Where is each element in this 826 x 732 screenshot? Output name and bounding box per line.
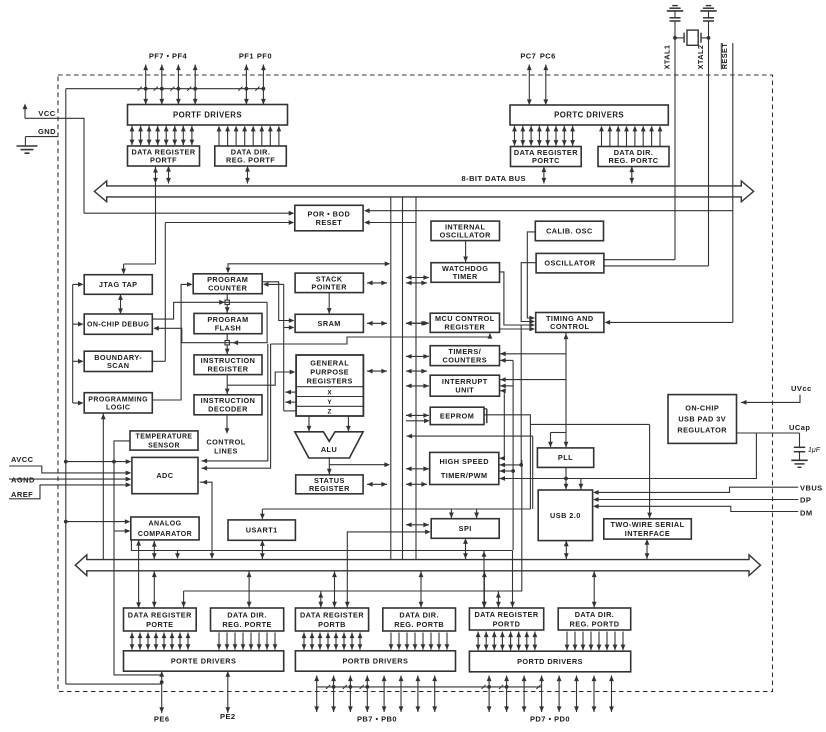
- svg-text:XTAL2: XTAL2: [696, 45, 705, 70]
- svg-text:EEPROM: EEPROM: [440, 412, 474, 421]
- DM wire: [597, 506, 799, 511]
- EEPROM offset edge: [486, 409, 488, 423]
- pin arrow PF5: [177, 65, 179, 105]
- svg-text:PE6: PE6: [154, 715, 170, 724]
- svg-text:DM: DM: [800, 508, 813, 517]
- svg-text:REG. PORTD: REG. PORTD: [570, 619, 620, 628]
- INSTRUCTION DECODER: [194, 395, 262, 415]
- pointer bus line: [283, 284, 285, 411]
- analog mux line over PORTF pins: [66, 88, 264, 90]
- arrow data dir portb to drivers 4: [422, 633, 424, 650]
- pin arrow PF7: [145, 65, 147, 105]
- svg-text:COUNTER: COUNTER: [208, 284, 248, 293]
- vertical bus line C: [415, 197, 417, 560]
- arrow data register porte to data bus: [153, 572, 155, 608]
- svg-text:8-BIT DATA BUS: 8-BIT DATA BUS: [462, 174, 527, 183]
- INSTRUCTION REGISTER: [194, 355, 262, 375]
- arrow data dir portd to drivers 3: [590, 632, 592, 651]
- svg-text:SRAM: SRAM: [318, 319, 341, 328]
- arrow data dir porte to drivers 2: [234, 633, 236, 650]
- svg-text:PORTE DRIVERS: PORTE DRIVERS: [171, 657, 236, 666]
- arrow data register portd to drivers 1: [485, 632, 487, 651]
- arrow data register portd to data bus: [483, 572, 485, 608]
- PLL: [537, 448, 593, 468]
- arrow rail to boundary-scan: [73, 360, 80, 362]
- arrow data register porte to drivers 5: [171, 633, 173, 650]
- svg-text:DECODER: DECODER: [208, 405, 248, 414]
- svg-text:DATA DIR.: DATA DIR.: [575, 610, 615, 619]
- alternate function line PORTB/PORTD pins: [317, 686, 542, 688]
- arrow stack pointer to data bus: [367, 282, 387, 284]
- arrow data dir portb to drivers 7: [446, 633, 448, 650]
- arrow data register portb to drivers 3: [327, 633, 329, 650]
- arrows PORTF drivers to data register: [131, 126, 133, 145]
- arrow data dir portb to drivers 5: [430, 633, 432, 650]
- svg-text:1μF: 1μF: [808, 447, 821, 454]
- usart1 to data bus: [261, 540, 263, 559]
- arrow data dir porte to drivers 7: [274, 633, 276, 650]
- ground symbol above XTAL1 capacitor: [672, 5, 678, 7]
- serial feeder to TWSI: [530, 423, 649, 425]
- arrows PORTC drivers to data register: [514, 126, 516, 146]
- arrow data dir. reg. portb to data bus: [420, 572, 422, 608]
- arrow into EEPROM lower left: [406, 420, 426, 422]
- arrow decoder to control lines: [226, 415, 228, 433]
- svg-text:REGISTERS: REGISTERS: [307, 377, 353, 386]
- wire program counter to flash with breakpoint square: [226, 294, 228, 314]
- high speed timer input 4 from regulator: [499, 433, 756, 479]
- arrow data dir porte to drivers 4: [250, 633, 252, 650]
- arrow from bus up to serial net: [483, 551, 485, 609]
- arrow data register portb to drivers 0: [303, 633, 305, 650]
- analog comparator to data bus: [138, 540, 140, 608]
- arrow into SPI top 1: [450, 509, 452, 518]
- arrow data register portd to drivers 6: [526, 632, 528, 651]
- junction dot + slash: [245, 87, 249, 91]
- pin arrow PD7: [488, 676, 490, 713]
- arrow data register portb to drivers 5: [343, 633, 345, 650]
- EEPROM: [430, 407, 484, 424]
- arrow data register portb to drivers 2: [319, 633, 321, 650]
- svg-text:TEMPERATURE: TEMPERATURE: [136, 433, 193, 440]
- svg-text:VBUS: VBUS: [800, 483, 823, 492]
- INTERNAL OSCILLATOR: [431, 221, 500, 241]
- DATA REGISTER PORTC: [511, 147, 582, 167]
- feeder line down right of timers: [512, 360, 514, 550]
- svg-text:TIMER: TIMER: [453, 272, 478, 281]
- TEMPERATURE SENSOR: [130, 431, 198, 450]
- arrow data dir portb to drivers 1: [398, 633, 400, 650]
- SPI to data bus: [465, 538, 467, 559]
- svg-text:PORTD: PORTD: [493, 619, 521, 628]
- arrow data dir portd to drivers 6: [614, 632, 616, 651]
- junction dot + slash: [177, 87, 181, 91]
- arrow data register portb to data bus: [334, 572, 336, 608]
- DATA DIR. REG. PORTD: [558, 608, 631, 630]
- junction dot + slash: [144, 87, 148, 91]
- svg-text:OSCILLATOR: OSCILLATOR: [440, 231, 492, 240]
- wire interrupt unit input 3: [500, 390, 504, 392]
- left rail from mux line: [65, 89, 67, 684]
- arrow data register porte to drivers 7: [187, 633, 189, 650]
- svg-text:PURPOSE: PURPOSE: [310, 368, 349, 377]
- DATA REGISTER PORTF: [128, 146, 200, 166]
- PORTE DRIVERS: [124, 651, 284, 671]
- svg-text:ADC: ADC: [156, 471, 173, 480]
- RESET line: [732, 43, 734, 322]
- arrow data dir porte to drivers 3: [242, 633, 244, 650]
- breakpoint square 2: [225, 341, 229, 345]
- arrow data dir portd to drivers 2: [582, 632, 584, 651]
- net down to data register portd: [512, 551, 514, 609]
- arrow rail to programming logic: [73, 402, 80, 404]
- wire boundary-scan to rail: [152, 360, 165, 362]
- arrow internal oscillator to watchdog: [465, 241, 467, 263]
- arrows data dir to PORTC drivers: [601, 127, 603, 147]
- wire instruction register to general purpose registers: [227, 372, 292, 385]
- arrow y register to pointer bus: [285, 401, 296, 403]
- svg-text:TIMER/PWM: TIMER/PWM: [441, 471, 488, 480]
- ADC input 2: [202, 344, 271, 468]
- svg-text:SPI: SPI: [459, 524, 472, 533]
- pin arrow PB4: [366, 676, 368, 713]
- PROGRAM FLASH: [194, 313, 262, 333]
- svg-text:PORTF: PORTF: [150, 156, 177, 165]
- SPI left input: [347, 532, 427, 608]
- svg-text:CONTROL: CONTROL: [206, 438, 245, 447]
- arrow data register porte to drivers 4: [163, 633, 165, 650]
- svg-text:PF1: PF1: [239, 52, 254, 61]
- junction dot + slash: [505, 685, 509, 689]
- ALU symbol: [295, 432, 363, 458]
- SPI: [431, 519, 499, 539]
- svg-text:PC6: PC6: [540, 52, 556, 61]
- arrow data dir portd to drivers 0: [566, 632, 568, 651]
- DATA DIR. REG. PORTF: [215, 146, 286, 166]
- wire data register PORTF to bus and JTAG feed: [155, 166, 157, 264]
- pin arrow PB5: [349, 676, 351, 713]
- arrow data register PORTF to bus: [168, 166, 170, 184]
- arrow data register portb to drivers 4: [335, 633, 337, 650]
- pin arrow PF4: [194, 65, 196, 105]
- pin arrow PD5: [523, 676, 525, 713]
- wire VCC rail down to POR: [83, 118, 85, 213]
- arrow data dir portb to drivers 2: [406, 633, 408, 650]
- STACK POINTER: [295, 273, 363, 293]
- USB to data bus: [565, 541, 567, 559]
- svg-text:FLASH: FLASH: [215, 323, 242, 332]
- arrow data register portb to drivers 7: [359, 633, 361, 650]
- ground symbol below capacitor: [791, 459, 807, 461]
- wire RESET to POR: [369, 210, 733, 212]
- svg-text:REG. PORTE: REG. PORTE: [222, 620, 272, 629]
- svg-text:REGISTER: REGISTER: [208, 365, 249, 374]
- arrow JTAG TAP to on-chip debug: [120, 294, 122, 314]
- svg-text:REG. PORTC: REG. PORTC: [609, 156, 659, 165]
- arrow data register porte to drivers 0: [131, 633, 133, 650]
- AVCC wire: [9, 466, 128, 473]
- arrow SRAM to data bus: [367, 322, 387, 324]
- INTERRUPT UNIT: [430, 375, 499, 396]
- arrow into programming logic from below: [102, 413, 104, 560]
- svg-text:PLL: PLL: [558, 453, 573, 462]
- wire GND: [25, 136, 58, 138]
- svg-text:AREF: AREF: [11, 490, 33, 499]
- junction dot + slash: [365, 685, 369, 689]
- capacitor at XTAL2: [708, 11, 710, 17]
- supply branch to USB: [580, 479, 582, 491]
- wire XTAL2 to oscillator: [604, 265, 709, 267]
- pin arrow PF1: [245, 65, 247, 105]
- svg-text:GENERAL: GENERAL: [310, 359, 349, 368]
- high speed timer input 2: [520, 325, 522, 465]
- USB 2.0: [538, 490, 592, 541]
- PORTD DRIVERS: [469, 651, 630, 672]
- arrow data register porte to drivers 6: [179, 633, 181, 650]
- svg-text:REG. PORTF: REG. PORTF: [226, 156, 275, 165]
- wire program counter to data bus: [228, 264, 387, 270]
- wire eeprom to serial feeder: [484, 415, 530, 509]
- wire programming logic to program counter: [152, 284, 188, 400]
- DATA REGISTER PORTE: [124, 608, 197, 631]
- arrow data dir porte to drivers 0: [218, 633, 220, 650]
- USART1: [228, 520, 295, 540]
- arrow data dir PORTC to bus: [631, 167, 633, 184]
- DATA DIR. REG. PORTB: [383, 608, 456, 631]
- svg-text:PROGRAMMING: PROGRAMMING: [88, 396, 148, 403]
- arrow serial net to bus: [177, 551, 179, 559]
- svg-text:PE2: PE2: [220, 712, 236, 721]
- svg-text:CONTROL: CONTROL: [550, 322, 589, 331]
- svg-text:DATA DIR.: DATA DIR.: [399, 610, 439, 619]
- junction dot + slash: [160, 87, 164, 91]
- top data bus arrow: [94, 181, 753, 202]
- svg-text:DATA REGISTER: DATA REGISTER: [128, 610, 192, 619]
- pin arrow PE2: [227, 671, 229, 713]
- wire interrupt unit input 2: [500, 385, 513, 387]
- svg-text:PF0: PF0: [257, 52, 272, 61]
- pin arrow PD1: [593, 676, 595, 713]
- ground symbol above XTAL2 capacitor: [706, 5, 712, 7]
- wire boundary-scan rail to POR: [165, 222, 290, 224]
- arrow data dir portb to drivers 3: [414, 633, 416, 650]
- crystal symbol: [687, 30, 698, 45]
- arrow data bus to peripherals at stack pointer row: [406, 282, 427, 284]
- svg-text:PF7 • PF4: PF7 • PF4: [149, 52, 188, 61]
- AGND wire: [9, 478, 128, 480]
- PORTF DRIVERS: [128, 105, 288, 126]
- dashed chip boundary: [58, 75, 773, 692]
- arrow data register portd to drivers 7: [534, 632, 536, 651]
- feeder down to high speed timer input 1: [503, 391, 505, 459]
- capacitor at XTAL1: [674, 11, 676, 17]
- arrow data bus to peripherals at SRAM row: [406, 322, 427, 324]
- TWO-WIRE SERIAL INTERFACE: [604, 519, 692, 539]
- wire analog rail to ADC: [66, 461, 128, 463]
- arrows data dir to PORTF drivers: [218, 127, 220, 147]
- UVcc wire: [741, 395, 800, 403]
- svg-text:ON-CHIP: ON-CHIP: [685, 404, 719, 413]
- wire PC to SRAM: [262, 282, 290, 321]
- XTAL1 line: [674, 21, 676, 260]
- pin arrow PB7: [316, 676, 318, 713]
- svg-text:Z: Z: [328, 409, 332, 416]
- arrow data dir PORTF to bus: [247, 166, 249, 184]
- CALIB. OSC: [535, 221, 603, 241]
- arrow status register to data bus: [367, 483, 387, 485]
- pin arrow PD3: [558, 676, 560, 713]
- svg-text:ANALOG: ANALOG: [148, 521, 181, 528]
- pin arrow PF0: [262, 65, 264, 105]
- UCap wire: [737, 432, 800, 434]
- svg-text:REGISTER: REGISTER: [309, 484, 350, 493]
- wire VCC to border: [25, 117, 84, 119]
- arrow data bus to peripherals at status register row: [406, 483, 427, 485]
- pin arrow PB2: [400, 676, 402, 713]
- wire RESET to timing and control: [609, 321, 733, 323]
- arrow data register portd to drivers 4: [510, 632, 512, 651]
- pin arrow PD6: [506, 676, 508, 713]
- HIGH SPEED TIMER/PWM: [430, 452, 499, 484]
- analog comparator input 1: [66, 521, 127, 523]
- arrow ALU to status register: [328, 457, 330, 475]
- STATUS REGISTER: [296, 475, 363, 494]
- arrow analog comparator to bus: [153, 541, 155, 559]
- PROGRAMMING LOGIC: [84, 393, 152, 413]
- ADC: [132, 457, 198, 493]
- temperature sensor feed: [114, 441, 162, 675]
- wire into POR right lower: [369, 222, 416, 224]
- high speed timer input 3: [499, 470, 513, 472]
- arrow stack pointer to SRAM: [328, 293, 330, 315]
- pin arrow PD0: [611, 676, 613, 713]
- arrow data register portd to drivers 0: [477, 632, 479, 651]
- bottom data bus arrow: [75, 555, 760, 576]
- DP wire: [597, 499, 799, 501]
- svg-text:X: X: [327, 389, 332, 396]
- pin arrow PF6: [161, 65, 163, 105]
- wire ALU output to bus: [329, 464, 386, 466]
- wire VCC to POR: [84, 212, 290, 214]
- svg-text:TWO-WIRE SERIAL: TWO-WIRE SERIAL: [610, 520, 684, 529]
- arrow GPR to ALU right: [347, 416, 349, 432]
- breakpoint square 1: [225, 300, 229, 304]
- wire to JTAG TAP: [124, 263, 156, 265]
- pin arrow PC6: [545, 65, 547, 106]
- arrow data bus to EEPROM: [406, 414, 429, 416]
- arrow feeder into data register porte: [183, 591, 185, 608]
- arrow pointer bus to program counter: [267, 283, 284, 285]
- ON-CHIP DEBUG: [84, 314, 152, 334]
- OSCILLATOR: [536, 253, 604, 273]
- ANALOG COMPARATOR: [131, 517, 199, 540]
- TIMING AND CONTROL: [536, 313, 604, 333]
- svg-text:REG. PORTB: REG. PORTB: [394, 620, 444, 629]
- VBUS wire: [597, 487, 799, 492]
- arrow data dir portd to drivers 7: [622, 632, 624, 651]
- pin arrow PB0: [434, 676, 436, 713]
- vertical bus line A: [390, 197, 392, 560]
- arrow data register portd to drivers 5: [518, 632, 520, 651]
- svg-text:POINTER: POINTER: [311, 283, 347, 292]
- timing and control to PLL vertical: [565, 333, 567, 447]
- DATA REGISTER PORTB: [295, 608, 368, 631]
- AREF wire: [9, 485, 128, 499]
- wire interrupt unit input 1: [500, 379, 566, 381]
- svg-text:DATA DIR.: DATA DIR.: [227, 610, 267, 619]
- arrow data bus to MCU control register: [406, 322, 429, 324]
- arrow GPR to data bus: [367, 370, 387, 372]
- arrow instruction register to decoder: [226, 375, 228, 395]
- pin arrow PB3: [383, 676, 385, 713]
- svg-text:REGISTER: REGISTER: [444, 323, 485, 332]
- left service rail: [72, 284, 74, 403]
- junction dot + slash: [349, 685, 353, 689]
- arrow data dir portd to drivers 1: [574, 632, 576, 651]
- arrow data dir. reg. portd to data bus: [593, 572, 595, 608]
- arrow data dir porte to drivers 5: [258, 633, 260, 650]
- MCU CONTROL REGISTER: [430, 313, 499, 332]
- arrow data bus to timers/counters: [406, 355, 429, 357]
- wire MCU control register to timing and control: [500, 328, 532, 330]
- DATA DIR. REG. PORTC: [598, 147, 669, 167]
- arrow data bus to SPI: [406, 524, 429, 526]
- POR - BOD RESET: [295, 205, 363, 231]
- svg-text:PORTB DRIVERS: PORTB DRIVERS: [342, 657, 408, 666]
- svg-text:PORTE: PORTE: [146, 620, 173, 629]
- svg-text:UVcc: UVcc: [791, 384, 812, 393]
- GENERAL PURPOSE REGISTERS: [296, 355, 363, 416]
- svg-text:PORTC: PORTC: [532, 156, 560, 165]
- wire z register to pointer bus: [284, 410, 296, 412]
- svg-text:LOGIC: LOGIC: [106, 404, 130, 411]
- svg-text:COUNTERS: COUNTERS: [443, 355, 488, 364]
- svg-text:SENSOR: SENSOR: [148, 442, 180, 449]
- pin arrow PC7: [528, 65, 530, 106]
- svg-text:AVCC: AVCC: [11, 455, 34, 464]
- arrow data register porte to drivers 3: [155, 633, 157, 650]
- BOUNDARY-SCAN: [84, 351, 152, 371]
- feeder line above port registers: [184, 460, 522, 591]
- svg-text:GND: GND: [38, 127, 56, 136]
- ground symbol: [17, 145, 38, 147]
- svg-text:VCC: VCC: [38, 109, 55, 118]
- arrow x register to pointer bus: [285, 391, 296, 393]
- XTAL2 line: [708, 21, 710, 266]
- arrow data bus to interrupt unit: [406, 385, 429, 387]
- svg-text:USB PAD 3V: USB PAD 3V: [678, 415, 726, 424]
- svg-text:PORTD DRIVERS: PORTD DRIVERS: [517, 657, 583, 666]
- TIMERS/ COUNTERS: [430, 346, 499, 366]
- svg-text:Y: Y: [327, 399, 332, 406]
- arrow data bus to peripherals at GPR row: [406, 370, 427, 372]
- svg-text:PORTC DRIVERS: PORTC DRIVERS: [554, 111, 624, 120]
- svg-text:CALIB. OSC: CALIB. OSC: [546, 227, 593, 236]
- SRAM: [295, 314, 363, 332]
- svg-text:UNIT: UNIT: [455, 385, 474, 394]
- USART1 top feed: [262, 508, 530, 510]
- arrow data register porte to drivers 2: [147, 633, 149, 650]
- svg-text:ON-CHIP DEBUG: ON-CHIP DEBUG: [87, 322, 150, 329]
- analog comparator input 2: [114, 530, 127, 532]
- wire flash to instruction register with breakpoint square: [226, 334, 228, 355]
- svg-text:INTERFACE: INTERFACE: [625, 529, 670, 538]
- arrow data dir portb to drivers 6: [438, 633, 440, 650]
- arrow data register portd to drivers 2: [493, 632, 495, 651]
- svg-text:AGND: AGND: [11, 475, 35, 484]
- arrow data dir portb to drivers 0: [390, 633, 392, 650]
- svg-text:PB7 • PB0: PB7 • PB0: [357, 715, 397, 724]
